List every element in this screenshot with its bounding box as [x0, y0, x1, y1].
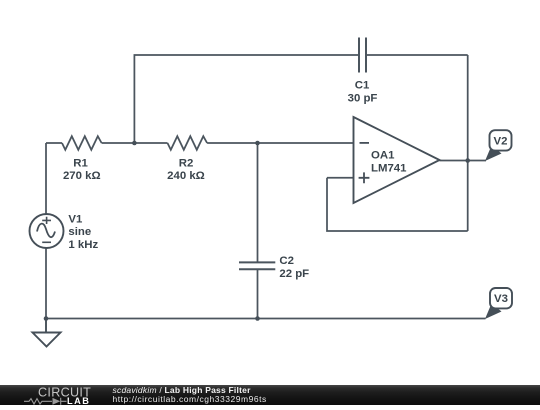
wire right output rail vertical [467, 55, 469, 231]
footer url line [113, 394, 267, 404]
svg-text:C2: C2 [279, 255, 294, 267]
V1 sine symbol [37, 224, 55, 238]
label C1 [348, 79, 378, 104]
wire top feedback rail right (C1 to output rail) [366, 54, 468, 56]
resistor R2 [168, 136, 208, 150]
svg-text:V2: V2 [494, 135, 508, 147]
wire bottom ground rail [46, 318, 486, 320]
svg-text:R1: R1 [73, 157, 88, 169]
wire left rail bottom (V1 to ground rail) [45, 248, 47, 319]
svg-text:22 pF: 22 pF [279, 268, 309, 280]
flag V3 [485, 288, 512, 319]
svg-text:30 pF: 30 pF [348, 93, 378, 105]
node B junction R2-C2-opamp [255, 141, 260, 146]
label OA1 [371, 149, 407, 174]
svg-text:1 kHz: 1 kHz [68, 239, 98, 251]
footer title line [113, 385, 251, 395]
label V1 [68, 213, 98, 251]
V1 plus sign [42, 217, 51, 224]
wire feedback loop bottom [327, 178, 468, 231]
wire top feedback rail left (node A to C1) [134, 55, 359, 143]
svg-text:R2: R2 [179, 157, 194, 169]
svg-text:C1: C1 [355, 79, 370, 91]
ground [33, 319, 61, 347]
wire op-amp noninverting input [327, 177, 354, 179]
wire R1 to R2 [102, 142, 168, 144]
footer bar [0, 385, 540, 406]
svg-text:OA1: OA1 [371, 149, 395, 161]
label C2 [279, 255, 309, 280]
wire op-amp output [440, 160, 487, 162]
svg-text:240 kΩ: 240 kΩ [167, 170, 205, 182]
wire C2 bottom lead [257, 269, 259, 318]
voltage source V1 [30, 214, 64, 248]
node C2-ground junction [255, 316, 260, 321]
node A junction R1-R2-C1 [132, 141, 137, 146]
V1 minus sign [42, 241, 51, 243]
op-amp plus input symbol [359, 172, 370, 183]
svg-text:sine: sine [68, 226, 91, 238]
svg-text:LM741: LM741 [371, 163, 407, 175]
label R2 [167, 157, 205, 182]
wire R2 to op-amp inverting input [207, 142, 353, 144]
svg-text:LAB: LAB [67, 395, 90, 405]
svg-text:270 kΩ: 270 kΩ [63, 170, 101, 182]
wire R1 left lead [46, 142, 62, 144]
svg-text:V1: V1 [68, 213, 83, 225]
resistor R1 [62, 136, 102, 150]
capacitor C2 plates [239, 262, 275, 269]
op-amp OA1 [354, 117, 440, 203]
CircuitLab logo [0, 385, 100, 406]
flag V2 [485, 130, 512, 161]
node output junction [465, 158, 470, 163]
node ground-left junction [44, 316, 49, 321]
wire C2 top lead [257, 143, 259, 262]
wire left rail top (R1 lead to V1) [45, 143, 47, 214]
op-amp minus input symbol [360, 142, 370, 144]
svg-text:V3: V3 [494, 293, 508, 305]
capacitor C1 plates [359, 38, 366, 73]
label R1 [63, 157, 101, 182]
